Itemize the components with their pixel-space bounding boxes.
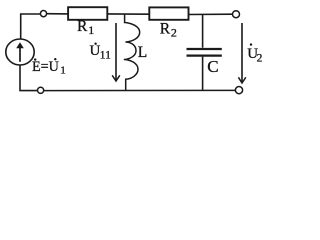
capacitor C bottom lead <box>202 57 204 91</box>
svg-text:L: L <box>138 44 147 61</box>
terminal bottom-right <box>235 87 242 94</box>
arrow U11 (voltage across L) <box>112 23 120 81</box>
svg-text:1: 1 <box>88 23 94 37</box>
resistor R1 <box>68 7 107 20</box>
wire bottom from terminal to bottom-right terminal <box>44 89 236 91</box>
svg-text:2: 2 <box>171 26 177 40</box>
terminal top-right <box>233 11 240 18</box>
wire bottom-left vertical from source to bottom wire <box>20 65 37 91</box>
current source E circle <box>6 39 34 65</box>
capacitor C top plate <box>187 48 222 50</box>
svg-text:E=U: E=U <box>32 59 59 75</box>
terminal bottom-left <box>38 87 44 93</box>
source arrow <box>16 42 24 62</box>
svg-text:R: R <box>77 18 88 35</box>
terminal top-left <box>40 11 46 17</box>
capacitor C bottom plate <box>187 54 222 56</box>
wire top from left corner to terminal circle <box>20 13 40 15</box>
label E = U1 with dots <box>32 58 66 77</box>
wire from R1 to R2 (through inductor junction) <box>107 13 149 15</box>
resistor R2 <box>149 7 188 19</box>
wire top-left vertical from source to top wire <box>20 14 22 39</box>
wire from terminal to R1 <box>47 13 69 15</box>
svg-text:2: 2 <box>257 53 263 65</box>
label U2 with dot <box>247 43 262 64</box>
capacitor C top lead <box>202 14 204 47</box>
label U11 with dot <box>90 43 112 62</box>
svg-text:R: R <box>160 21 171 38</box>
svg-text:11: 11 <box>100 50 111 62</box>
svg-text:C: C <box>207 57 218 76</box>
label R2 <box>160 21 177 40</box>
inductor L coil <box>124 14 140 91</box>
svg-text:1: 1 <box>60 65 65 77</box>
label R1 <box>77 18 94 37</box>
arrow U2 (output voltage) <box>238 23 245 83</box>
wire from R2 to top-right terminal <box>188 13 232 15</box>
